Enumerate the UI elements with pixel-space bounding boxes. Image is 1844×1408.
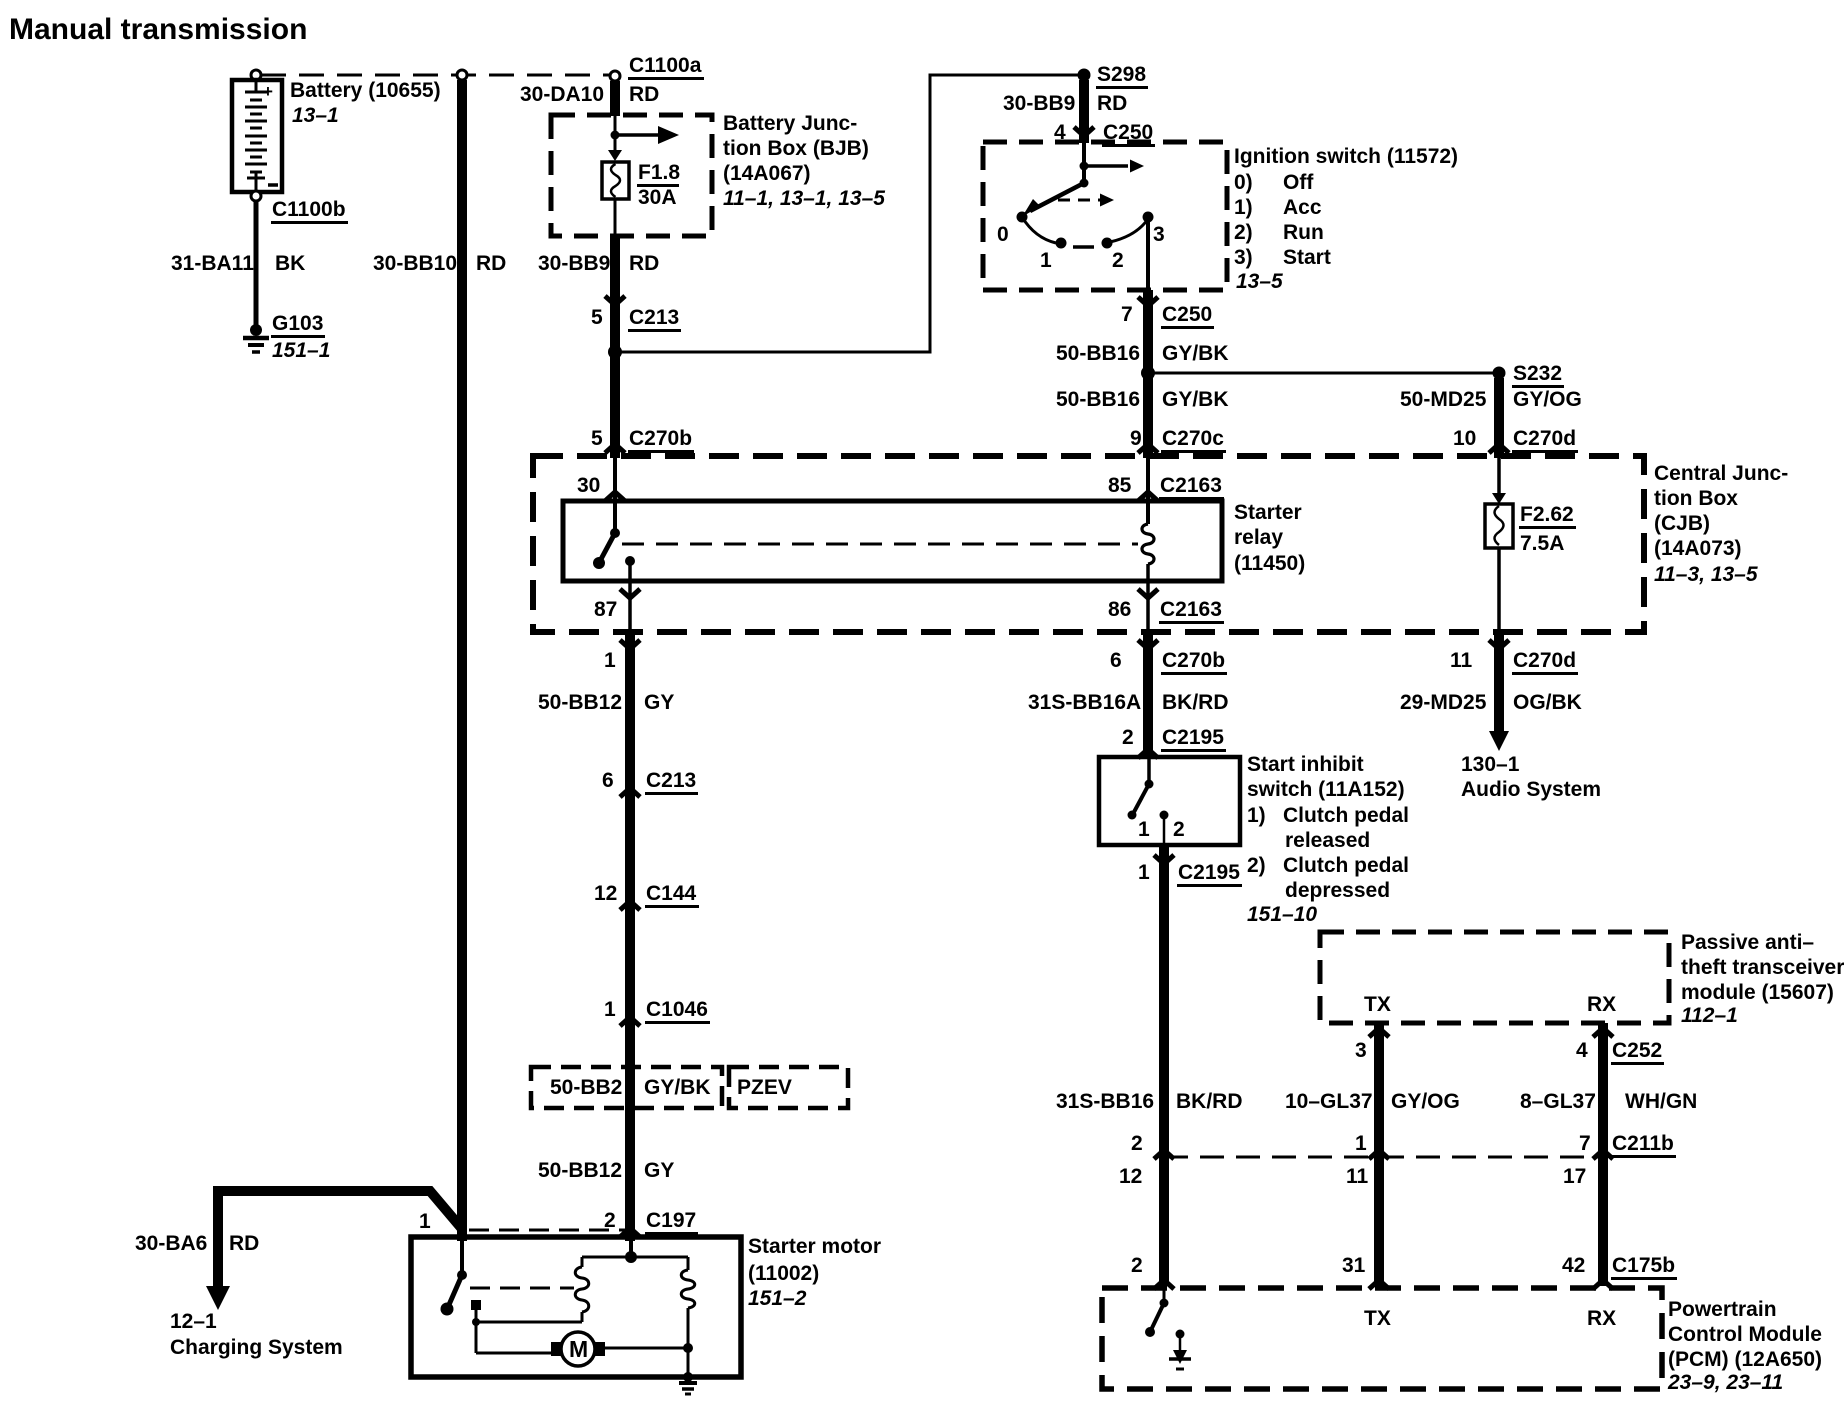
svg-text:M: M — [569, 1336, 588, 1362]
battery (10655) — [232, 80, 282, 192]
svg-text:TX: TX — [1364, 1307, 1391, 1330]
svg-text:(11450): (11450) — [1234, 552, 1305, 575]
svg-text:1: 1 — [1355, 1132, 1367, 1155]
relay pin 86 arrow — [1138, 589, 1158, 598]
svg-text:tion Box (BJB): tion Box (BJB) — [723, 137, 869, 160]
PCM internal switch feed — [1163, 1288, 1166, 1303]
relay stationary contact — [625, 556, 635, 566]
svg-text:10–GL37: 10–GL37 — [1285, 1090, 1373, 1113]
svg-text:RX: RX — [1587, 1307, 1616, 1330]
connector C250 pin 7 (arrow) — [1138, 297, 1158, 306]
svg-text:(CJB): (CJB) — [1654, 512, 1710, 535]
svg-text:12: 12 — [1119, 1165, 1142, 1188]
svg-text:30-BB9: 30-BB9 — [538, 252, 610, 275]
wire 30-DA10 RD (C1100a to BJB) — [610, 81, 620, 116]
start inhibit switch (11A152) outline — [1099, 757, 1240, 845]
svg-text:31: 31 — [1342, 1254, 1366, 1277]
wire: link to splice S232 — [1148, 372, 1494, 375]
svg-text:30-BB10: 30-BB10 — [373, 252, 457, 275]
svg-text:2: 2 — [1112, 249, 1124, 272]
passive anti-theft transceiver module outline — [1320, 932, 1669, 1023]
connector C270d pin 10 (arrow) — [1489, 444, 1509, 453]
connector C175b pin 31 (arrow) — [1369, 1280, 1389, 1289]
svg-text:C211b: C211b — [1612, 1132, 1674, 1155]
node: ignition rotor pivot — [1080, 179, 1089, 188]
svg-text:GY/BK: GY/BK — [1162, 342, 1229, 365]
svg-text:0: 0 — [997, 223, 1009, 246]
svg-text:theft transceiver: theft transceiver — [1681, 956, 1844, 979]
svg-text:11–1, 13–1, 13–5: 11–1, 13–1, 13–5 — [723, 187, 885, 210]
svg-text:1: 1 — [604, 998, 616, 1021]
wire 30-BA6 RD (to charging system) — [218, 1191, 463, 1288]
wire: ignition contact 3 to C250 pin 7 — [1146, 220, 1150, 290]
svg-text:30-BA6: 30-BA6 — [135, 1232, 207, 1255]
svg-text:TX: TX — [1364, 993, 1391, 1016]
svg-text:1: 1 — [419, 1210, 431, 1233]
svg-text:C197: C197 — [646, 1209, 696, 1232]
svg-text:C1046: C1046 — [646, 998, 708, 1021]
svg-text:BK/RD: BK/RD — [1162, 691, 1229, 714]
node: battery positive terminal — [251, 70, 261, 80]
svg-text:F2.62: F2.62 — [1520, 503, 1574, 526]
connector C211b pin 2 (arrow) — [1154, 1150, 1174, 1159]
arrow: ignition feed branch — [1084, 164, 1128, 168]
wire: contact post to solenoid coil — [476, 1321, 582, 1324]
svg-text:(14A067): (14A067) — [723, 162, 811, 185]
starter motor feed from C197 pin 2 — [629, 1241, 633, 1257]
connector C2195 pin 2 (arrow) — [1138, 749, 1158, 758]
fuse F1.8 30A — [602, 162, 629, 199]
contact 0 of ignition switch — [1017, 212, 1028, 223]
connector C252 pin 4 (arrow) — [1593, 1028, 1613, 1037]
contact 3 of ignition switch — [1143, 212, 1154, 223]
wire 50-MD25 GY/OG (S232 to CJB) — [1494, 378, 1504, 458]
svg-text:1): 1) — [1234, 196, 1253, 219]
wire 30-BB9 RD (S298 to ignition switch) — [1079, 80, 1089, 143]
svg-text:C213: C213 — [629, 306, 679, 329]
wire 30-BB10 RD (battery bus to starter motor) — [457, 80, 467, 1241]
svg-text:Control Module: Control Module — [1668, 1323, 1822, 1346]
wire: motor to field winding — [605, 1347, 688, 1350]
svg-text:G103: G103 — [272, 312, 323, 335]
svg-text:12: 12 — [594, 882, 617, 905]
relay pin 85 lead — [1146, 458, 1150, 524]
svg-text:10: 10 — [1453, 427, 1476, 450]
svg-text:1): 1) — [1247, 804, 1266, 827]
ignition rotor arm — [1030, 183, 1084, 211]
svg-text:RX: RX — [1587, 993, 1616, 1016]
svg-text:Start inhibit: Start inhibit — [1247, 753, 1364, 776]
svg-text:C270d: C270d — [1513, 649, 1576, 672]
arrow: rotation direction (dashed) — [1058, 199, 1100, 202]
svg-text:GY/BK: GY/BK — [644, 1076, 711, 1099]
arrow to audio system — [1489, 731, 1509, 751]
node: ignition switch feed junction — [1080, 162, 1089, 171]
ignition switch internal feed — [1082, 142, 1086, 183]
svg-text:Starter motor: Starter motor — [748, 1235, 881, 1258]
svg-text:13–1: 13–1 — [292, 104, 339, 127]
splice S232 — [1493, 367, 1506, 380]
svg-text:1: 1 — [1138, 818, 1150, 841]
svg-text:50-BB16: 50-BB16 — [1056, 342, 1140, 365]
svg-text:depressed: depressed — [1285, 879, 1390, 902]
node: C1100a connector — [610, 71, 620, 81]
svg-text:2): 2) — [1247, 854, 1266, 877]
svg-text:6: 6 — [1110, 649, 1122, 672]
wire: contact post to motor brush — [476, 1352, 553, 1355]
svg-text:50-BB12: 50-BB12 — [538, 691, 622, 714]
svg-text:Audio System: Audio System — [1461, 778, 1601, 801]
svg-text:86: 86 — [1108, 598, 1131, 621]
svg-text:1: 1 — [604, 649, 616, 672]
wire: dashed bus from battery positive to C1100a — [261, 74, 610, 77]
svg-text:C2163: C2163 — [1160, 474, 1222, 497]
svg-text:7: 7 — [1121, 303, 1133, 326]
svg-text:C2195: C2195 — [1178, 861, 1240, 884]
svg-text:31S-BB16: 31S-BB16 — [1056, 1090, 1154, 1113]
connector C252 pin 3 (arrow) — [1369, 1028, 1389, 1037]
powertrain control module (PCM) outline — [1102, 1288, 1662, 1389]
connector C197 dashed line — [469, 1229, 627, 1232]
wire 29-MD25 OG/BK (CJB to audio system) — [1494, 632, 1504, 733]
svg-text:151–1: 151–1 — [272, 339, 330, 362]
start inhibit switch arm — [1134, 784, 1149, 812]
wire 50-BB12 GY (relay 87 to starter) — [625, 632, 635, 1241]
svg-text:7: 7 — [1579, 1132, 1591, 1155]
node: battery negative terminal — [251, 191, 261, 201]
svg-text:3: 3 — [1355, 1039, 1367, 1062]
connector C197 pin 2 (arrow) — [620, 1228, 640, 1237]
arrow into fuse F1.8 — [608, 150, 622, 161]
svg-text:Off: Off — [1283, 171, 1314, 194]
svg-text:S232: S232 — [1513, 362, 1562, 385]
relay pin 87 arrow — [620, 589, 640, 598]
svg-text:GY: GY — [644, 691, 674, 714]
svg-text:Clutch pedal: Clutch pedal — [1283, 804, 1409, 827]
connector C175b pin 42 (arrow) — [1593, 1280, 1613, 1289]
svg-text:30: 30 — [577, 474, 600, 497]
svg-text:2: 2 — [1131, 1254, 1143, 1277]
svg-text:29-MD25: 29-MD25 — [1400, 691, 1487, 714]
svg-text:50-BB16: 50-BB16 — [1056, 388, 1140, 411]
solenoid dashed actuator link — [470, 1287, 574, 1290]
connector C211b dashed line — [1164, 1156, 1603, 1159]
relay coil dashed actuator link — [622, 543, 1138, 546]
wire 50-BB16 GY/BK (ignition to S232 node) — [1143, 290, 1153, 458]
svg-text:6: 6 — [602, 769, 614, 792]
relay pin 85 arrow — [1138, 492, 1158, 501]
starter motor ground — [683, 1372, 693, 1382]
svg-text:GY/OG: GY/OG — [1391, 1090, 1460, 1113]
battery junction box (BJB) outline — [551, 115, 712, 236]
svg-text:GY/OG: GY/OG — [1513, 388, 1582, 411]
node: motor field junction — [683, 1343, 693, 1353]
svg-text:Acc: Acc — [1283, 196, 1322, 219]
node: splice junction to S232 — [1141, 366, 1155, 380]
svg-text:C144: C144 — [646, 882, 697, 905]
svg-text:Battery (10655): Battery (10655) — [290, 79, 441, 102]
connector C270c pin 9 (arrow) — [1138, 444, 1158, 453]
svg-text:50-MD25: 50-MD25 — [1400, 388, 1487, 411]
svg-text:13–5: 13–5 — [1236, 270, 1283, 293]
wire 31-BA11 BK battery to ground — [254, 201, 259, 325]
wire: BJB internal feed — [614, 115, 617, 152]
svg-text:C270b: C270b — [1162, 649, 1225, 672]
svg-text:31S-BB16A: 31S-BB16A — [1028, 691, 1141, 714]
node: starter winding junction — [625, 1251, 637, 1263]
svg-text:C270c: C270c — [1162, 427, 1224, 450]
svg-text:Charging System: Charging System — [170, 1336, 343, 1359]
svg-text:C175b: C175b — [1612, 1254, 1675, 1277]
contact 1 of ignition switch — [1056, 238, 1067, 249]
svg-text:85: 85 — [1108, 474, 1132, 497]
svg-text:BK: BK — [275, 252, 305, 275]
svg-text:50-BB12: 50-BB12 — [538, 1159, 622, 1182]
arrow: BJB feed to other circuits — [615, 133, 659, 137]
svg-text:5: 5 — [591, 427, 603, 450]
connector C2195 pin 1 (arrow) — [1154, 855, 1174, 864]
wire 30-BB9 RD (BJB to C213) — [610, 236, 620, 458]
relay pin 30 arrow — [605, 492, 625, 501]
svg-text:2: 2 — [1122, 726, 1134, 749]
connector C213 pin 5 (arrow) — [605, 296, 625, 305]
svg-text:Ignition switch (11572): Ignition switch (11572) — [1234, 145, 1458, 168]
svg-text:2): 2) — [1234, 221, 1253, 244]
svg-text:30-BB9: 30-BB9 — [1003, 92, 1075, 115]
svg-text:50-BB2: 50-BB2 — [550, 1076, 622, 1099]
svg-text:GY: GY — [644, 1159, 674, 1182]
svg-text:PZEV: PZEV — [737, 1076, 792, 1099]
svg-text:switch (11A152): switch (11A152) — [1247, 778, 1405, 801]
fuse F2.62 to CJB bottom — [1497, 548, 1501, 632]
svg-text:1: 1 — [1040, 249, 1052, 272]
connector C175b pin 2 (arrow) — [1154, 1280, 1174, 1289]
svg-text:C270b: C270b — [629, 427, 692, 450]
svg-text:C2195: C2195 — [1162, 726, 1224, 749]
svg-text:released: released — [1285, 829, 1370, 852]
svg-text:Battery Junc-: Battery Junc- — [723, 112, 857, 135]
svg-text:112–1: 112–1 — [1681, 1004, 1738, 1027]
connector C270b pin 5 (arrow) — [605, 444, 625, 453]
PCM internal switch arm — [1151, 1303, 1164, 1330]
svg-text:(11002): (11002) — [748, 1262, 819, 1285]
solenoid contact post — [471, 1300, 481, 1310]
alternate wire 50-BB2 GY/BK box — [531, 1067, 722, 1108]
svg-text:C213: C213 — [646, 769, 696, 792]
central junction box (CJB) outline — [533, 456, 1644, 632]
relay coil to pin 86 lead — [1146, 564, 1150, 632]
svg-text:151–2: 151–2 — [748, 1287, 807, 1310]
svg-text:30A: 30A — [638, 186, 677, 209]
svg-text:Start: Start — [1283, 246, 1331, 269]
starter solenoid switch feed — [460, 1241, 464, 1275]
wire: fuse to BJB bottom — [614, 199, 617, 236]
svg-text:Clutch pedal: Clutch pedal — [1283, 854, 1409, 877]
svg-text:11: 11 — [1346, 1165, 1369, 1188]
svg-text:Powertrain: Powertrain — [1668, 1298, 1777, 1321]
wire 31S-BB16A BK/RD (relay 86 to start inhibit switch) — [1143, 632, 1153, 757]
wire: field junction to ground — [687, 1348, 690, 1379]
svg-text:Starter: Starter — [1234, 501, 1302, 524]
svg-text:12–1: 12–1 — [170, 1310, 217, 1333]
svg-text:C250: C250 — [1162, 303, 1212, 326]
svg-text:RD: RD — [229, 1232, 259, 1255]
svg-text:RD: RD — [1097, 92, 1127, 115]
connector C270b pin 1 (arrow) — [620, 640, 640, 649]
node: PCM switch common — [1160, 1299, 1169, 1308]
svg-text:module (15607): module (15607) — [1681, 981, 1834, 1004]
wire: link from C213 node to splice S298 — [615, 75, 1079, 352]
starter motor (11002) outline — [411, 1237, 741, 1377]
svg-text:3): 3) — [1234, 246, 1253, 269]
ground G103 — [250, 324, 262, 336]
arrow into fuse F2.62 — [1492, 493, 1506, 504]
contact 2 of ignition switch — [1102, 238, 1113, 249]
svg-text:4: 4 — [1576, 1039, 1588, 1062]
wire 8-GL37 WH/GN (PATS RX to PCM) — [1598, 1023, 1608, 1286]
svg-text:87: 87 — [594, 598, 617, 621]
arc through ignition contacts — [1022, 217, 1056, 243]
relay pin 30 lead — [613, 458, 617, 530]
start inhibit contact 2 node — [1160, 811, 1169, 820]
node: splice below C213 — [608, 345, 622, 359]
node: start inhibit common — [1145, 780, 1154, 789]
svg-text:C1100b: C1100b — [272, 198, 346, 221]
node: 30-BB10 tap on bus — [457, 70, 467, 80]
node: BJB internal junction — [611, 131, 620, 140]
wire: winding top bus — [582, 1256, 688, 1259]
svg-text:C252: C252 — [1612, 1039, 1662, 1062]
svg-text:7.5A: 7.5A — [1520, 532, 1564, 555]
svg-text:11: 11 — [1450, 649, 1473, 672]
svg-text:9: 9 — [1130, 427, 1142, 450]
fuse F2.62 7.5A — [1485, 504, 1513, 548]
svg-text:C2163: C2163 — [1160, 598, 1222, 621]
svg-text:23–9, 23–11: 23–9, 23–11 — [1667, 1371, 1783, 1394]
svg-text:3: 3 — [1153, 223, 1165, 246]
svg-text:17: 17 — [1563, 1165, 1586, 1188]
PCM internal ground contact — [1176, 1330, 1185, 1339]
svg-text:WH/GN: WH/GN — [1625, 1090, 1697, 1113]
svg-text:RD: RD — [629, 83, 659, 106]
relay common contact node — [610, 528, 620, 538]
svg-text:11–3, 13–5: 11–3, 13–5 — [1654, 563, 1758, 586]
arrow to charging system — [206, 1286, 230, 1310]
wire 10-GL37 GY/OG (PATS TX to PCM) — [1374, 1023, 1384, 1286]
svg-text:Central Junc-: Central Junc- — [1654, 462, 1788, 485]
relay movable contact arm — [600, 533, 615, 561]
node: solenoid switch common — [457, 1270, 467, 1280]
svg-text:(14A073): (14A073) — [1654, 537, 1742, 560]
fuse F2.62 feed — [1497, 458, 1501, 495]
svg-text:tion Box: tion Box — [1654, 487, 1738, 510]
solenoid pull-in winding — [581, 1257, 584, 1267]
connector C211b pin 1 (arrow) — [1369, 1150, 1389, 1159]
starter motor M — [551, 1342, 562, 1356]
svg-text:Run: Run — [1283, 221, 1324, 244]
svg-text:RD: RD — [476, 252, 506, 275]
svg-text:2: 2 — [1173, 818, 1185, 841]
svg-text:BK/RD: BK/RD — [1176, 1090, 1243, 1113]
PZEV tag box — [729, 1067, 848, 1108]
connector C211b pin 7 (arrow) — [1593, 1150, 1613, 1159]
start inhibit switch feed — [1147, 757, 1151, 784]
splice S298 — [1078, 69, 1091, 82]
svg-text:5: 5 — [591, 306, 603, 329]
svg-text:0): 0) — [1234, 171, 1253, 194]
svg-text:S298: S298 — [1097, 63, 1146, 86]
svg-text:Manual transmission: Manual transmission — [9, 13, 307, 46]
svg-text:F1.8: F1.8 — [638, 161, 680, 184]
wire 31S-BB16 BK/RD (start inhibit to PCM) — [1159, 845, 1169, 1286]
svg-text:C270d: C270d — [1513, 427, 1576, 450]
connector C270d pin 11 (arrow) — [1489, 640, 1509, 649]
svg-text:Passive anti–: Passive anti– — [1681, 931, 1814, 954]
svg-text:relay: relay — [1234, 526, 1283, 549]
svg-text:42: 42 — [1562, 1254, 1585, 1277]
connector C270b pin 6 (arrow) — [1138, 640, 1158, 649]
svg-text:C1100a: C1100a — [629, 54, 702, 77]
connector C250 pin 4 (arrow) — [1074, 127, 1094, 136]
ignition switch (11572) outline — [983, 142, 1227, 290]
relay coil — [1142, 524, 1154, 564]
svg-text:1: 1 — [1138, 861, 1150, 884]
svg-text:30-DA10: 30-DA10 — [520, 83, 604, 106]
svg-text:GY/BK: GY/BK — [1162, 388, 1229, 411]
starter solenoid switch arm — [448, 1275, 462, 1307]
starter field winding — [687, 1257, 690, 1270]
connector C1046 pin 1 (arrow) — [620, 1017, 640, 1026]
svg-text:31-BA11: 31-BA11 — [171, 252, 254, 275]
connector C213 pin 6 (arrow) — [620, 788, 640, 797]
svg-text:130–1: 130–1 — [1461, 753, 1520, 776]
start inhibit contact 2 lead — [1163, 815, 1166, 845]
svg-text:(PCM) (12A650): (PCM) (12A650) — [1668, 1348, 1822, 1371]
relay contact to pin 87 lead — [628, 561, 632, 632]
svg-text:RD: RD — [629, 252, 659, 275]
connector C144 pin 12 (arrow) — [620, 901, 640, 910]
svg-text:8–GL37: 8–GL37 — [1520, 1090, 1596, 1113]
svg-text:OG/BK: OG/BK — [1513, 691, 1582, 714]
svg-text:2: 2 — [1131, 1132, 1143, 1155]
starter relay (11450) outline — [563, 501, 1222, 581]
svg-text:151–10: 151–10 — [1247, 903, 1317, 926]
